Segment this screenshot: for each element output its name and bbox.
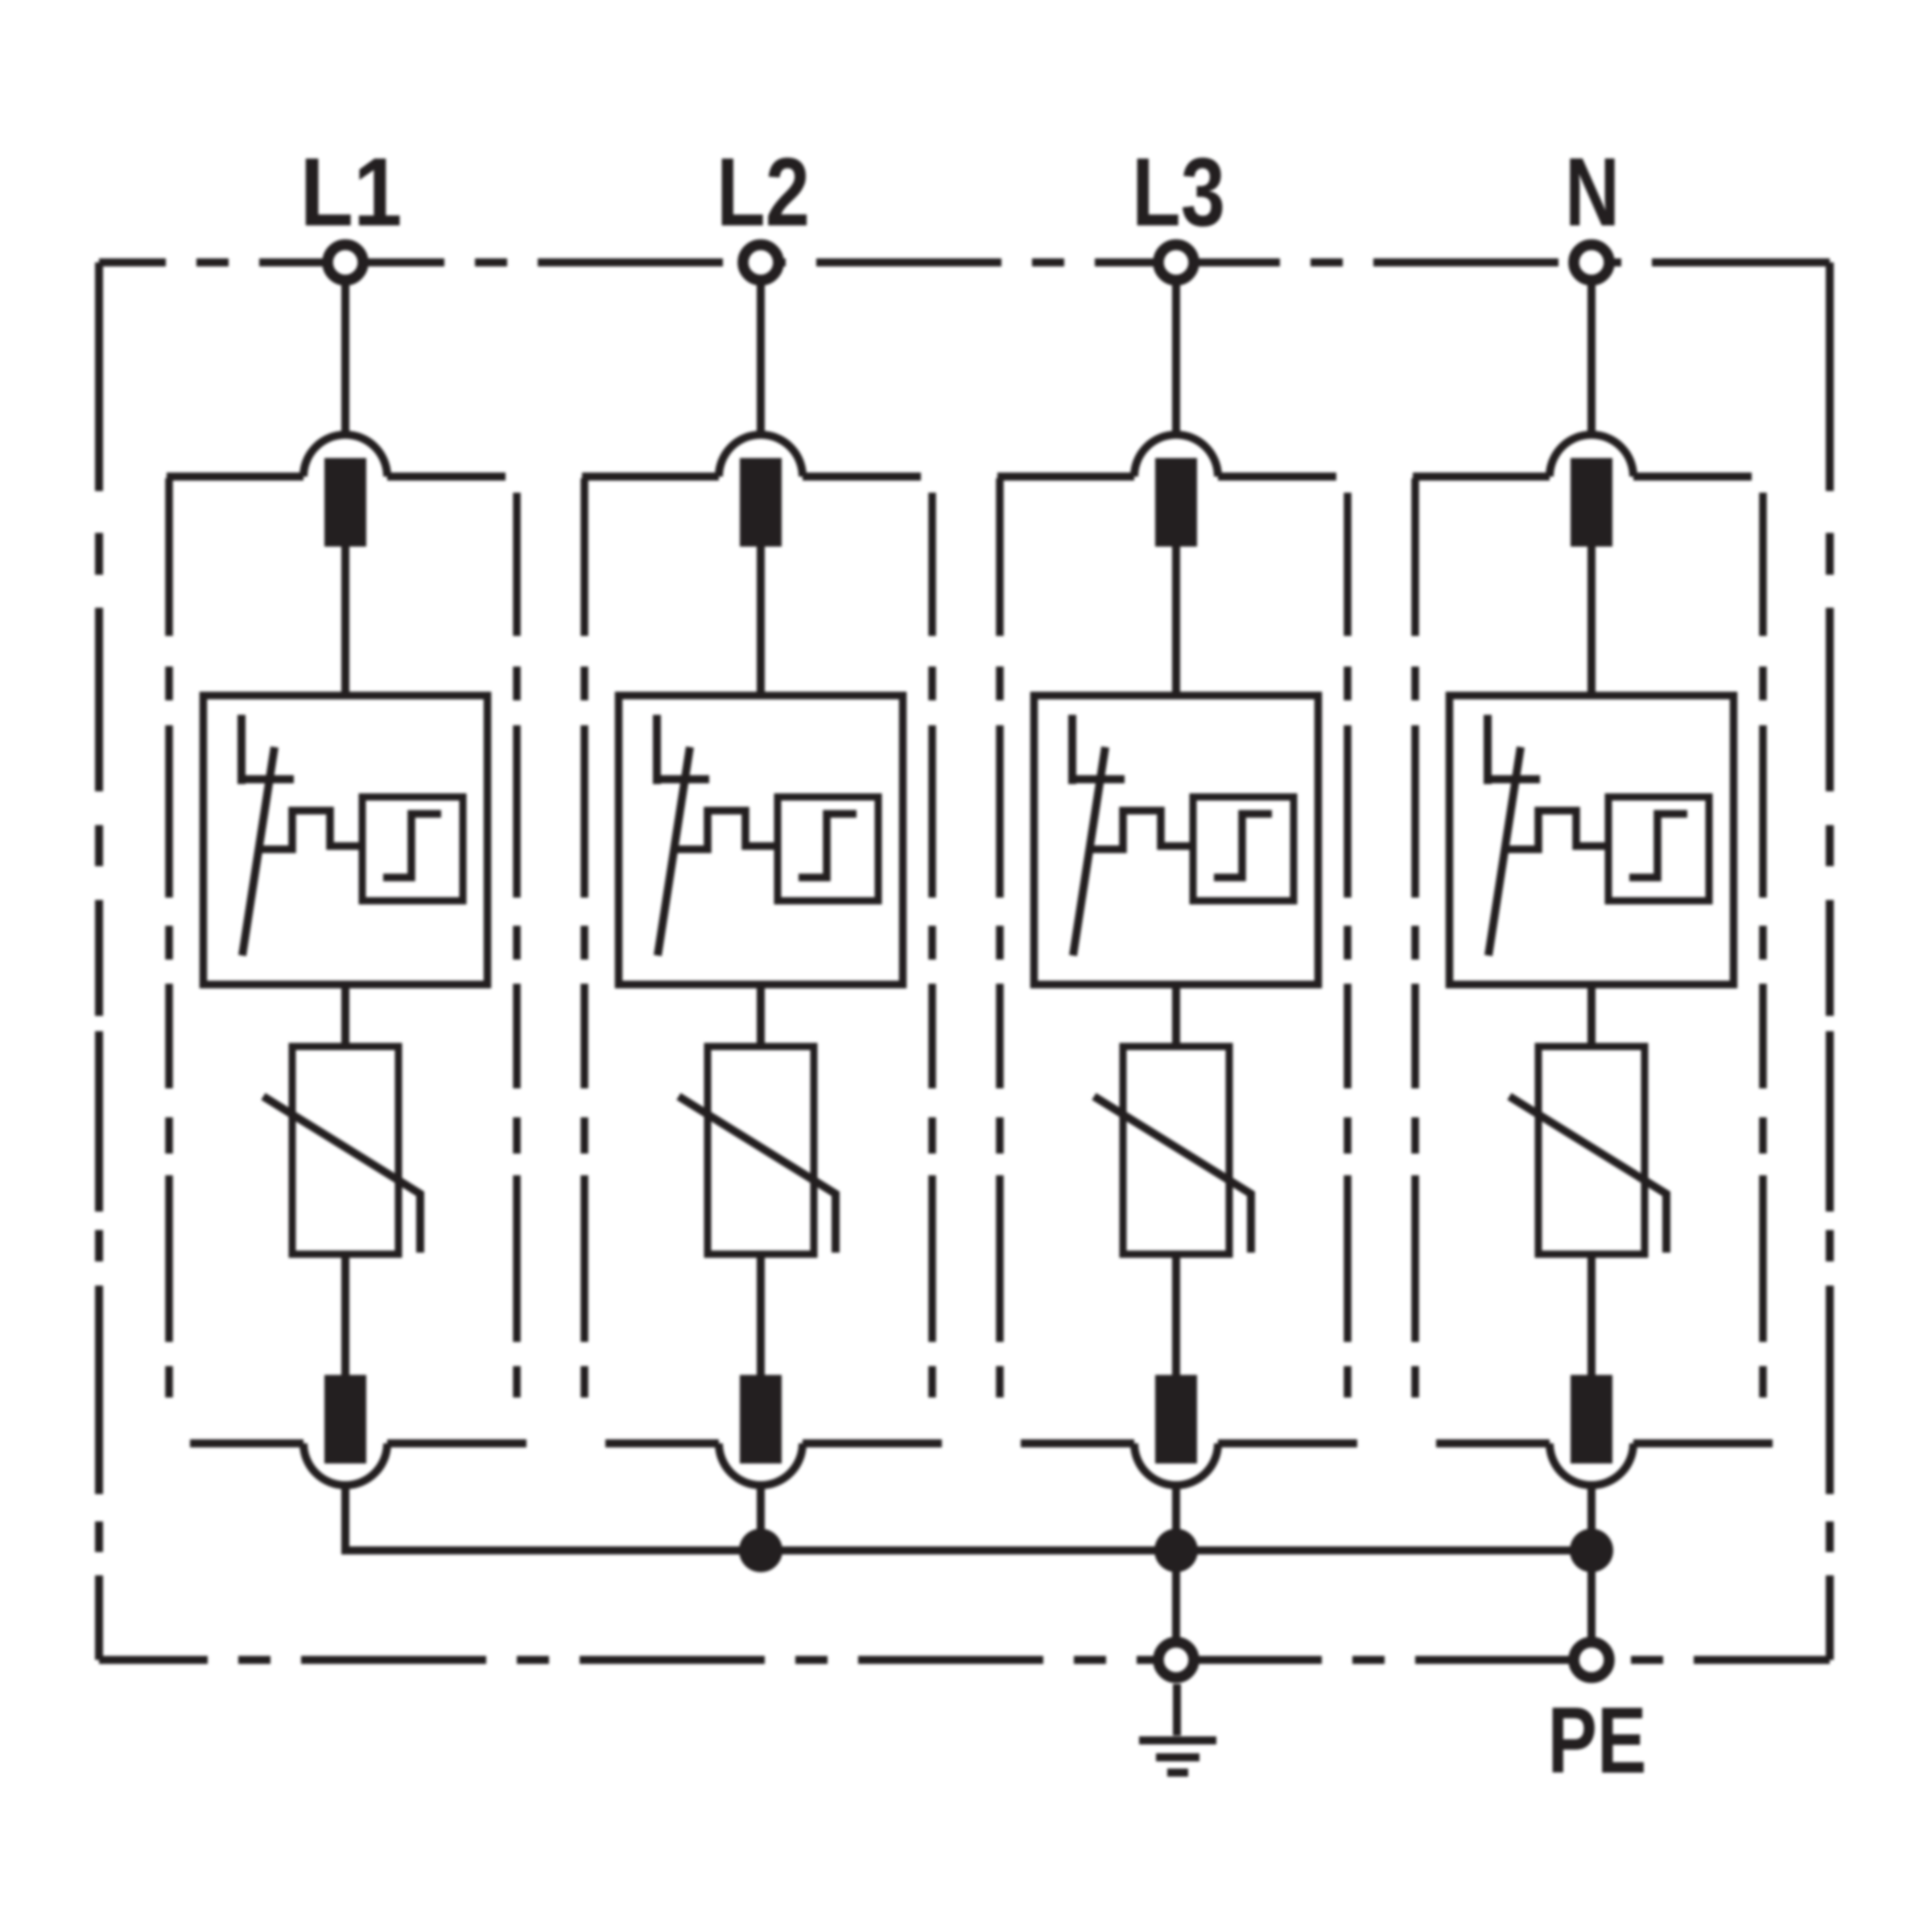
svg-text:PE: PE: [1548, 1687, 1647, 1793]
svg-text:L3: L3: [1132, 137, 1225, 246]
svg-text:N: N: [1565, 137, 1620, 246]
svg-text:L2: L2: [716, 137, 810, 246]
svg-text:L1: L1: [300, 137, 402, 246]
